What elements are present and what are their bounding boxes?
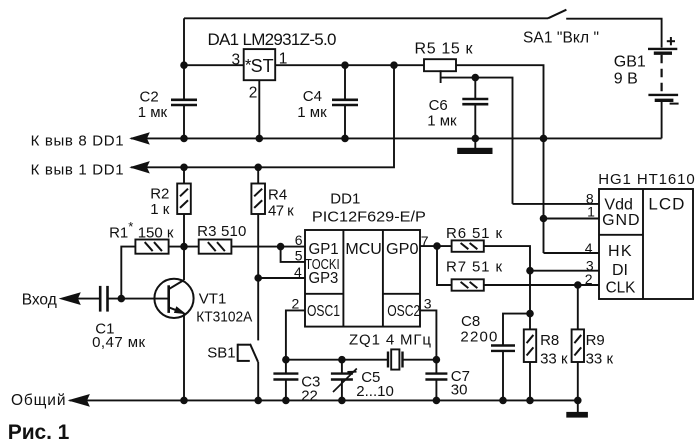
wire GP3 pin4 bbox=[258, 277, 305, 279]
wire SB1 upper bbox=[257, 278, 259, 340]
node GP3 / SB1 junction bbox=[255, 275, 262, 282]
wire HG1 pin1 GND bbox=[544, 218, 600, 220]
wire ground rail К выв 8 DD1 bbox=[131, 137, 662, 139]
svg-text:DD1: DD1 bbox=[330, 190, 360, 207]
node 5V / VDD riser junction bbox=[391, 62, 398, 69]
node SB1 common junction bbox=[255, 397, 262, 404]
label R5 15 к bbox=[415, 41, 474, 58]
wire C2 bottom to ground rail bbox=[183, 106, 185, 139]
label R8 bbox=[540, 332, 559, 349]
wire HG1 pin4 HK bbox=[544, 252, 600, 254]
capacitor C6 bbox=[462, 78, 488, 139]
arrow Общий bbox=[70, 395, 90, 406]
pin 6 of DD1 bbox=[295, 232, 303, 248]
pin 3 of DA1 bbox=[232, 51, 241, 68]
pin 2 of HG1 bbox=[585, 271, 593, 287]
capacitor C3 bbox=[273, 360, 298, 401]
battery GB1 cell1 short plate bbox=[654, 52, 672, 55]
label GB1 bbox=[614, 53, 646, 70]
svg-text:R7 51 к: R7 51 к bbox=[446, 259, 502, 276]
label C5 bbox=[361, 369, 380, 386]
svg-text:2...10: 2...10 bbox=[356, 383, 394, 400]
wire collector to R-junction bbox=[183, 247, 185, 280]
svg-text:GB1: GB1 bbox=[614, 53, 646, 70]
pin 1 of DA1 bbox=[279, 51, 288, 68]
wire R7 to HG1 pin2 CLK bbox=[484, 284, 599, 286]
resistor R2 bbox=[177, 184, 191, 215]
svg-text:ZQ1 4 МГц: ZQ1 4 МГц bbox=[349, 331, 431, 348]
svg-text:КТ3102А: КТ3102А bbox=[196, 309, 252, 326]
svg-text:GP0: GP0 bbox=[386, 241, 419, 258]
svg-text:33 к: 33 к bbox=[540, 351, 568, 368]
label LCD bbox=[648, 194, 684, 213]
caption Рис. 1 bbox=[8, 421, 70, 444]
svg-text:Vdd: Vdd bbox=[604, 196, 632, 213]
svg-text:*: * bbox=[128, 219, 133, 234]
arrow К выв 8 DD1 bbox=[131, 133, 149, 144]
svg-text:4: 4 bbox=[585, 240, 593, 256]
label OSC2 bbox=[387, 303, 420, 320]
node C3 top junction bbox=[283, 356, 290, 363]
label ZQ1 4 МГц bbox=[349, 331, 431, 348]
label GND bbox=[602, 212, 640, 229]
resistor R6 bbox=[452, 240, 484, 251]
svg-text:C2: C2 bbox=[140, 89, 159, 106]
wire DI vertical to R8 bbox=[529, 271, 531, 330]
svg-text:К выв 1 DD1: К выв 1 DD1 bbox=[31, 161, 124, 178]
svg-text:SB1: SB1 bbox=[207, 344, 235, 361]
pin 2 of DA1 bbox=[249, 84, 258, 101]
wire OSC2 pin3 bbox=[420, 310, 436, 359]
wire emitter to common rail bbox=[183, 313, 185, 401]
label HK bbox=[608, 243, 632, 260]
node ground rail / C2 bbox=[181, 135, 188, 142]
label DI bbox=[612, 262, 628, 279]
label GB1 plus sign bbox=[667, 37, 675, 45]
node C5 bottom junction bbox=[339, 397, 346, 404]
wire C1 to base bbox=[108, 298, 169, 300]
svg-text:C6: C6 bbox=[429, 97, 448, 114]
svg-text:Рис. 1: Рис. 1 bbox=[8, 421, 70, 444]
svg-text:2200: 2200 bbox=[460, 328, 497, 345]
label OSC1 bbox=[307, 303, 340, 320]
resistor R7 bbox=[452, 279, 484, 290]
pin 5 of DD1 bbox=[295, 247, 303, 263]
node pin7 junction bbox=[434, 243, 441, 250]
svg-text:HG1 HT1610: HG1 HT1610 bbox=[598, 171, 695, 188]
node riser LCD pin1 junction bbox=[540, 215, 547, 222]
node R8 common junction bbox=[527, 397, 534, 404]
label R9 bbox=[586, 332, 605, 349]
wire 5V rail DA1 to R5 bbox=[275, 64, 424, 66]
svg-text:9 В: 9 В bbox=[614, 70, 638, 87]
svg-text:3: 3 bbox=[424, 295, 432, 311]
label GB1 value 9 В bbox=[614, 70, 638, 87]
label C8 bbox=[461, 313, 480, 330]
label C7 value 30 bbox=[451, 382, 468, 399]
op-amp U? regulator DA1 box bbox=[244, 49, 276, 80]
wire HG1 pin8 Vdd bbox=[513, 203, 600, 205]
label DA1 LM2931Z-5.0 bbox=[208, 30, 337, 49]
wire battery minus to ground rail bbox=[661, 102, 663, 138]
wire top rail left segment bbox=[184, 17, 548, 19]
label R6 51 к bbox=[446, 225, 502, 242]
svg-text:30: 30 bbox=[451, 382, 468, 399]
label HG1 HT1610 bbox=[598, 171, 695, 188]
label MCU bbox=[345, 241, 381, 258]
label GP0 bbox=[386, 241, 419, 258]
svg-text:R1: R1 bbox=[109, 224, 128, 241]
label GP1 bbox=[309, 241, 339, 258]
node 5V rail / C2 junction bbox=[181, 62, 188, 69]
wire left riser x=184 bbox=[183, 18, 185, 99]
wire tap rail to Vdd riser bbox=[441, 78, 513, 204]
svg-text:HK: HK bbox=[608, 243, 632, 260]
svg-text:R4: R4 bbox=[268, 187, 287, 204]
svg-text:Общий: Общий bbox=[11, 392, 66, 409]
node base junction bbox=[118, 295, 125, 302]
svg-text:LCD: LCD bbox=[648, 194, 684, 213]
label SB1 bbox=[207, 344, 235, 361]
wire R4 bottom to GP3 node bbox=[257, 214, 259, 278]
svg-text:CLK: CLK bbox=[606, 280, 636, 297]
wire top rail right segment bbox=[566, 19, 661, 48]
label C1 value 0,47 мк bbox=[92, 334, 145, 351]
resistor R3 bbox=[199, 240, 232, 254]
resistor R4 bbox=[251, 184, 265, 215]
label R7 51 к bbox=[446, 259, 502, 276]
label VT1 type КТ3102А bbox=[196, 309, 252, 326]
label C3 bbox=[301, 374, 320, 391]
label CLK bbox=[606, 280, 636, 297]
label C1 bbox=[95, 320, 114, 337]
node R1/R2/R3/collector junction bbox=[181, 243, 188, 250]
svg-text:R9: R9 bbox=[586, 332, 605, 349]
wire C8 branch bbox=[503, 314, 530, 346]
svg-text:ST: ST bbox=[251, 56, 274, 76]
node CLK / R9 junction bbox=[575, 282, 582, 289]
svg-text:2: 2 bbox=[292, 295, 300, 311]
label C4 bbox=[303, 88, 322, 105]
node C7 bottom junction bbox=[433, 397, 440, 404]
svg-text:22: 22 bbox=[301, 388, 318, 405]
node C3 bottom junction bbox=[283, 397, 290, 404]
label R3 510 bbox=[197, 223, 246, 240]
svg-text:33 к: 33 к bbox=[586, 351, 614, 368]
resistor R9 bbox=[572, 329, 584, 362]
node emitter common junction bbox=[181, 397, 188, 404]
label C4 value 1 мк bbox=[297, 104, 327, 121]
transistor VT1 bbox=[154, 279, 193, 318]
wire OSC1 pin2 bbox=[286, 310, 305, 359]
button SB1 bbox=[238, 344, 258, 362]
svg-text:6: 6 bbox=[295, 232, 303, 248]
capacitor C2 bbox=[171, 100, 197, 105]
wire R5 body tap stub bbox=[440, 70, 442, 83]
capacitor C7 bbox=[425, 360, 447, 401]
pin 8 of HG1 bbox=[586, 191, 594, 207]
node C6 bottom junction bbox=[472, 135, 479, 142]
arrow Вход bbox=[60, 293, 80, 304]
node riser ground-rail junction bbox=[540, 135, 547, 142]
svg-text:MCU: MCU bbox=[345, 241, 381, 258]
label C6 bbox=[429, 97, 448, 114]
battery GB1 dashed link bbox=[660, 55, 662, 93]
node C4 top junction bbox=[342, 62, 349, 69]
svg-text:GP3: GP3 bbox=[309, 270, 339, 287]
svg-text:1 мк: 1 мк bbox=[297, 104, 327, 121]
svg-text:Вход: Вход bbox=[22, 291, 57, 308]
label C6 value 1 мк bbox=[427, 113, 457, 130]
svg-text:1: 1 bbox=[587, 204, 595, 220]
battery GB1 cell2 short plate bbox=[655, 99, 674, 102]
node C4 bottom junction bbox=[342, 135, 349, 142]
svg-text:5: 5 bbox=[295, 247, 303, 263]
capacitor C5 trimmer bbox=[331, 360, 357, 401]
wire R6 to DI corner bbox=[484, 246, 530, 271]
node VDD rail / R4 bbox=[255, 164, 262, 171]
node C8 bottom junction bbox=[500, 397, 507, 404]
svg-text:PIC12F629-E/P: PIC12F629-E/P bbox=[312, 209, 426, 226]
svg-text:1 к: 1 к bbox=[150, 201, 170, 218]
resistor R1 bbox=[135, 240, 168, 254]
svg-text:47 к: 47 к bbox=[268, 202, 294, 219]
node DI junction bbox=[527, 267, 534, 274]
label TOCKI bbox=[305, 257, 340, 273]
label Общий bbox=[11, 392, 66, 409]
crystal ZQ1 bbox=[388, 349, 403, 369]
label C2 value 1 мк bbox=[138, 104, 168, 121]
label C2 bbox=[140, 89, 159, 106]
label C5 value 2...10 bbox=[356, 383, 394, 400]
label R1* 150 к bbox=[109, 219, 174, 241]
svg-text:1 мк: 1 мк bbox=[427, 113, 457, 130]
wire DA1 pin3 input bbox=[184, 64, 244, 66]
svg-text:OSC2: OSC2 bbox=[387, 303, 420, 320]
node C5 top junction bbox=[339, 356, 346, 363]
wire R7 branch bbox=[437, 246, 452, 285]
wire DA1 pin2 to ground bbox=[258, 80, 260, 138]
label R8 value 33 к bbox=[540, 351, 568, 368]
resistor R8 bbox=[524, 329, 536, 362]
pin 7 of DD1 bbox=[421, 233, 429, 249]
svg-text:SA1 "Вкл ": SA1 "Вкл " bbox=[523, 30, 599, 47]
svg-text:*: * bbox=[245, 55, 252, 74]
battery GB1 cell2 long plate bbox=[648, 94, 678, 96]
svg-text:R5 15 к: R5 15 к bbox=[415, 41, 474, 58]
svg-text:0,47 мк: 0,47 мк bbox=[92, 334, 145, 351]
svg-text:4: 4 bbox=[294, 264, 302, 280]
svg-text:R3 510: R3 510 bbox=[197, 223, 246, 240]
wire common rail Общий bbox=[70, 399, 578, 401]
arrow К выв 1 DD1 bbox=[131, 162, 149, 173]
node C6 top junction bbox=[472, 74, 479, 81]
svg-text:OSC1: OSC1 bbox=[307, 303, 340, 320]
label Vdd bbox=[604, 196, 632, 213]
label C8 value 2200 bbox=[460, 328, 497, 345]
node VDD rail / R2 bbox=[181, 164, 188, 171]
wire R8 bottom bbox=[529, 362, 531, 400]
svg-text:DA1 LM2931Z-5.0: DA1 LM2931Z-5.0 bbox=[208, 30, 337, 49]
pin 3 of DD1 bbox=[424, 295, 432, 311]
wire R9 top bbox=[577, 285, 579, 329]
wire DI to HG1 pin3 bbox=[530, 270, 599, 272]
wire input to C1 bbox=[78, 298, 100, 300]
pin 1 of HG1 bbox=[587, 204, 595, 220]
svg-text:GP1: GP1 bbox=[309, 241, 339, 258]
wire R2 bottom to collector node bbox=[183, 214, 185, 247]
label VT1 bbox=[199, 291, 227, 308]
label C7 bbox=[451, 368, 470, 385]
wire R1 right to R3 left bbox=[169, 246, 199, 248]
pin 2 of DD1 bbox=[292, 295, 300, 311]
svg-text:2: 2 bbox=[585, 271, 593, 287]
wire R1 left corner to base bbox=[121, 247, 135, 299]
node pin6/pin5 junction bbox=[277, 243, 284, 250]
svg-text:3: 3 bbox=[232, 51, 241, 68]
wire VDD rail К выв 1 DD1 bbox=[131, 65, 394, 167]
node DA1 pin2 ground junction bbox=[256, 135, 263, 142]
label DD1 bbox=[330, 190, 360, 207]
label GB1 minus sign bbox=[670, 103, 679, 105]
switch SA1 blade bbox=[548, 10, 566, 19]
svg-text:R6 51 к: R6 51 к bbox=[446, 225, 502, 242]
label R4 bbox=[268, 187, 287, 204]
capacitor C8 bbox=[491, 346, 515, 401]
wire crystal rail right bbox=[403, 359, 437, 361]
svg-text:C4: C4 bbox=[303, 88, 322, 105]
wire R5 output to LCD-gnd riser bbox=[456, 65, 544, 253]
resistor R5 bbox=[424, 59, 456, 71]
wire R3 right to DD1 pin6 bbox=[231, 246, 305, 248]
label Вход bbox=[22, 291, 57, 308]
LCD module HG1 box bbox=[599, 189, 693, 299]
MCU DD1 box bbox=[305, 230, 420, 327]
pin 4 of HG1 bbox=[585, 240, 593, 256]
label DD1 type PIC12F629-E/P bbox=[312, 209, 426, 226]
pin 4 of DD1 bbox=[294, 264, 302, 280]
wire R9 bottom bbox=[577, 362, 579, 400]
label К выв 1 DD1 bbox=[31, 161, 124, 178]
svg-text:DI: DI bbox=[612, 262, 628, 279]
ground symbol at R9 bbox=[567, 400, 588, 417]
label DA1 *ST bbox=[245, 55, 274, 76]
label К выв 8 DD1 bbox=[31, 133, 124, 150]
capacitor C4 bbox=[332, 65, 358, 138]
node C7 top junction bbox=[433, 356, 440, 363]
label R9 value 33 к bbox=[586, 351, 614, 368]
svg-text:150 к: 150 к bbox=[138, 224, 174, 241]
pin 3 of HG1 bbox=[586, 257, 594, 273]
svg-text:К выв 8 DD1: К выв 8 DD1 bbox=[31, 133, 124, 150]
wire pin5 branch bbox=[281, 247, 305, 262]
label C3 value 22 bbox=[301, 388, 318, 405]
wire crystal rail left bbox=[286, 359, 388, 361]
wire R2 top stem bbox=[183, 167, 185, 183]
svg-text:1 мк: 1 мк bbox=[138, 104, 168, 121]
label R2 bbox=[150, 186, 169, 203]
svg-text:2: 2 bbox=[249, 84, 258, 101]
wire SB1 lower bbox=[257, 362, 259, 401]
wire GP0 pin7 bbox=[420, 245, 452, 247]
label GP3 bbox=[309, 270, 339, 287]
node C8 branch junction bbox=[527, 310, 534, 317]
node R9 common junction bbox=[575, 397, 582, 404]
ground symbol below C6 bbox=[458, 138, 492, 153]
svg-text:R8: R8 bbox=[540, 332, 559, 349]
svg-text:GND: GND bbox=[602, 212, 640, 229]
label R4 value 47 к bbox=[268, 202, 294, 219]
capacitor C1 bbox=[100, 286, 107, 312]
battery GB1 cell1 long plate bbox=[648, 48, 677, 50]
wire R4 top stem bbox=[257, 167, 259, 183]
label SA1 "Вкл" bbox=[523, 30, 599, 47]
svg-text:VT1: VT1 bbox=[199, 291, 227, 308]
label R2 value 1 к bbox=[150, 201, 170, 218]
